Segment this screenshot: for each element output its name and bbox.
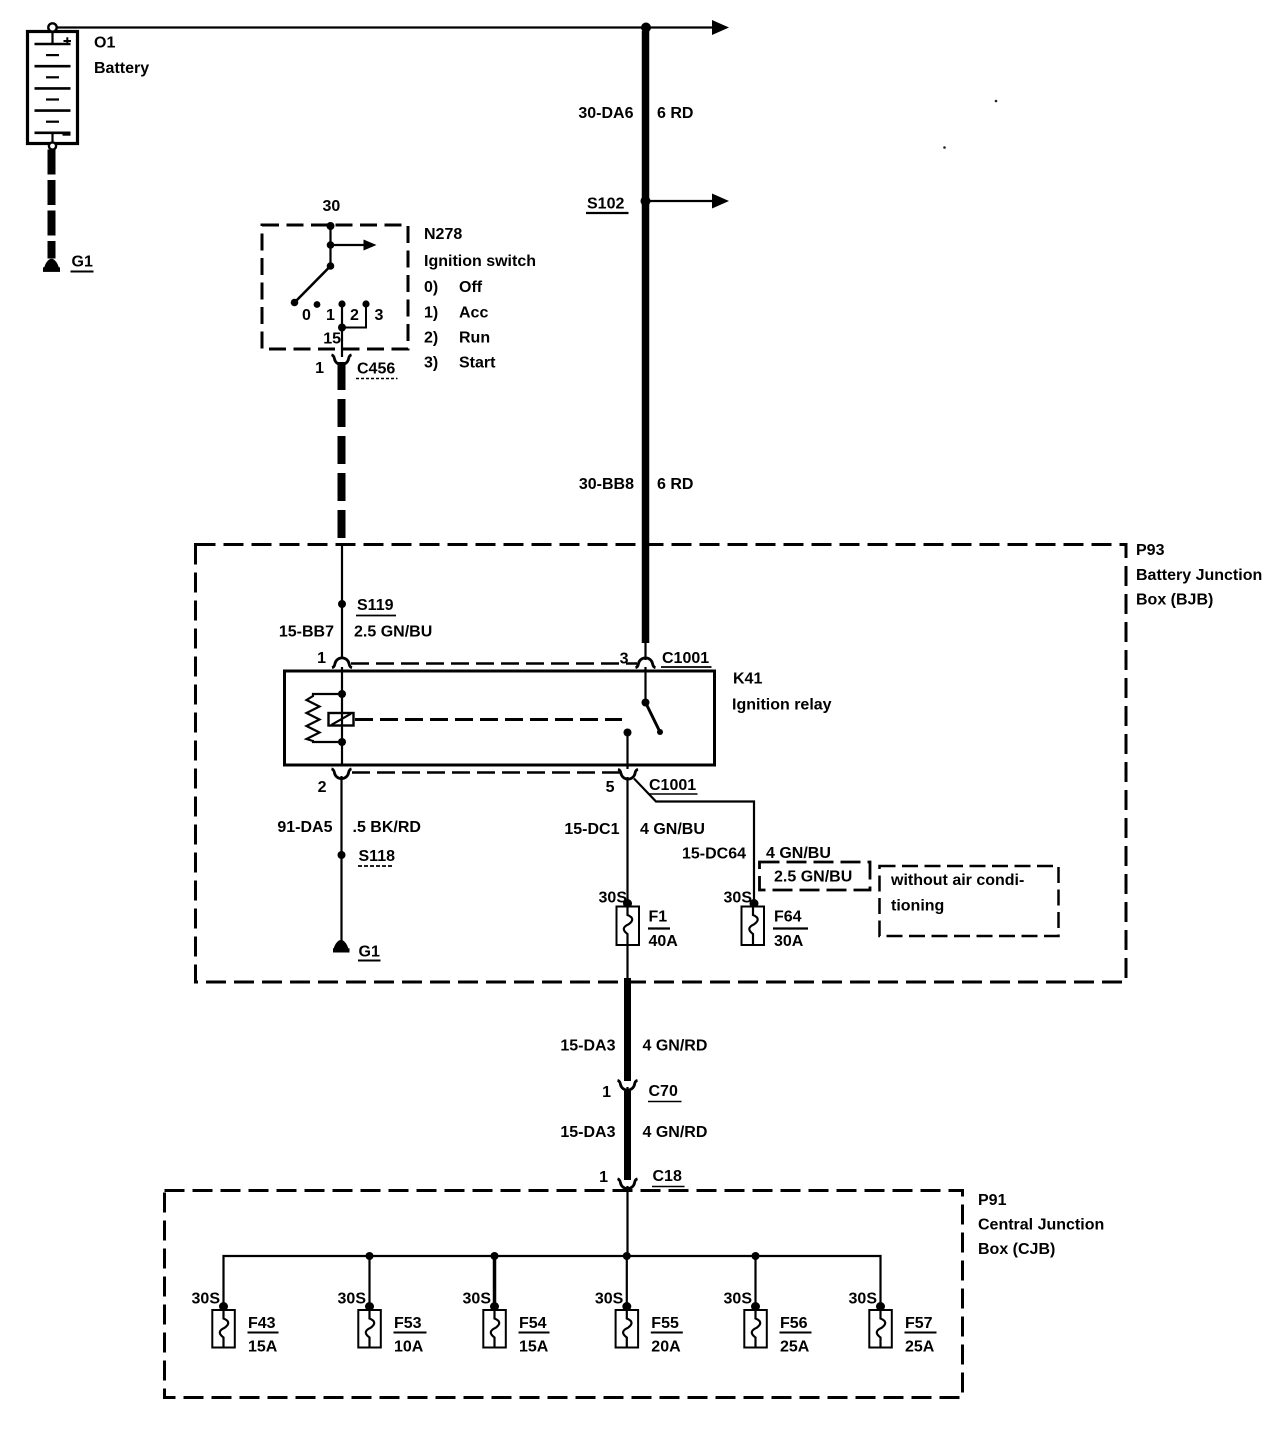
svg-text:F64: F64: [774, 909, 802, 926]
label 15-DC1 4 GN/BU: [564, 821, 705, 838]
splice S119: [338, 597, 396, 616]
fuse F55 20A: [595, 1291, 683, 1356]
fuse F53 10A: [338, 1291, 427, 1356]
label 15-DC64 4 GN/BU: [682, 845, 831, 863]
fuse F57 25A: [849, 1291, 937, 1356]
wire C18 to bus: [626, 1186, 628, 1256]
wire 15-DA3 lower heavy: [626, 1087, 628, 1180]
svg-text:1: 1: [326, 307, 335, 324]
svg-text:N278: N278: [424, 226, 462, 243]
battery terminal top: [48, 23, 56, 31]
box 2.5 GN/BU: [760, 862, 871, 890]
svg-text:G1: G1: [359, 944, 380, 961]
label C1001 bottom: [648, 777, 698, 794]
svg-text:40A: 40A: [649, 933, 679, 950]
svg-text:30-BB8: 30-BB8: [579, 476, 634, 493]
label 15-BB7 2.5 GN/BU: [279, 624, 432, 641]
wire switch common: [327, 226, 335, 266]
svg-text:15-DA3: 15-DA3: [560, 1038, 615, 1055]
svg-text:91-DA5: 91-DA5: [277, 819, 332, 836]
svg-text:1: 1: [317, 650, 326, 667]
svg-text:P93: P93: [1136, 542, 1165, 559]
svg-text:15A: 15A: [248, 1339, 278, 1356]
svg-text:P91: P91: [978, 1192, 1007, 1209]
svg-text:F43: F43: [248, 1315, 276, 1332]
relay K41 box: [285, 671, 715, 765]
svg-text:30S: 30S: [724, 1291, 753, 1308]
wire drop to F56: [754, 1256, 756, 1306]
svg-text:25A: 25A: [780, 1339, 810, 1356]
label C1001 top: [661, 650, 712, 667]
svg-text:F1: F1: [649, 909, 668, 926]
label 30: [323, 198, 341, 215]
svg-text:F57: F57: [905, 1315, 933, 1332]
wire drop to F53: [368, 1256, 370, 1306]
svg-text:G1: G1: [72, 254, 93, 271]
node pin 30: [327, 222, 335, 230]
connector C1001 top dashed link: [351, 662, 637, 665]
svg-text:15A: 15A: [519, 1339, 549, 1356]
svg-text:4 GN/RD: 4 GN/RD: [643, 1124, 708, 1141]
svg-text:2): 2): [424, 330, 438, 347]
svg-text:25A: 25A: [905, 1339, 935, 1356]
connector C456: [332, 355, 352, 365]
wire 91-DA5: [340, 776, 342, 941]
label 1 C456: [315, 360, 397, 379]
label 15: [323, 331, 341, 348]
box P91 Central Junction Box: [165, 1191, 963, 1398]
pin 3 connector: [620, 651, 656, 668]
node bus junction F56: [752, 1252, 760, 1260]
switch contacts 0 1 2 3: [314, 300, 370, 308]
box without air conditioning: [880, 866, 1059, 936]
svg-text:30A: 30A: [774, 933, 804, 950]
wire contact 3 jumper: [342, 304, 366, 328]
svg-text:F55: F55: [651, 1315, 679, 1332]
svg-text:F53: F53: [394, 1315, 422, 1332]
svg-text:30S: 30S: [599, 890, 628, 907]
fuse F56 25A: [724, 1291, 812, 1356]
battery terminal bottom: [49, 142, 56, 149]
wire C456 to BJB (dashed heavy): [338, 362, 346, 544]
svg-text:Ignition relay: Ignition relay: [732, 697, 832, 714]
splice S118: [338, 848, 396, 866]
connector C70: [602, 1080, 681, 1101]
label G1 (BJB): [358, 944, 381, 961]
svg-text:30S: 30S: [724, 890, 753, 907]
bus wire CJB: [224, 1256, 881, 1306]
label 30-BB8 6 RD: [579, 476, 694, 493]
svg-text:Off: Off: [459, 279, 483, 296]
svg-text:Box (CJB): Box (CJB): [978, 1241, 1055, 1258]
svg-text:without air condi-: without air condi-: [890, 872, 1024, 889]
label G1: [71, 254, 94, 272]
svg-text:0: 0: [302, 307, 311, 324]
pin 5 connector: [606, 769, 638, 796]
wire battery negative cable (dashed heavy): [48, 150, 56, 259]
label 15-DA3 4 GN/RD upper: [560, 1038, 707, 1055]
svg-text:1: 1: [599, 1169, 608, 1186]
svg-text:1: 1: [602, 1084, 611, 1101]
fuse F1 40A: [599, 890, 679, 951]
relay coil element: [329, 713, 354, 726]
svg-text:F54: F54: [519, 1315, 547, 1332]
svg-text:C456: C456: [357, 361, 395, 378]
svg-text:C18: C18: [653, 1168, 682, 1185]
pin 1 connector: [317, 650, 352, 668]
pin 2 connector: [318, 769, 352, 796]
svg-text:tioning: tioning: [891, 898, 944, 915]
svg-text:O1: O1: [94, 35, 115, 52]
svg-text:C70: C70: [649, 1083, 678, 1100]
svg-text:5: 5: [606, 779, 615, 796]
svg-text:K41: K41: [733, 671, 762, 688]
svg-text:Battery Junction: Battery Junction: [1136, 567, 1262, 584]
svg-text:C1001: C1001: [662, 650, 709, 667]
svg-text:S119: S119: [357, 597, 394, 614]
svg-text:4 GN/BU: 4 GN/BU: [640, 821, 705, 838]
relay fixed contact to pin 5: [624, 729, 632, 770]
svg-text:Ignition switch: Ignition switch: [424, 253, 536, 270]
label 15-DA3 4 GN/RD lower: [560, 1124, 707, 1141]
svg-text:2: 2: [318, 779, 327, 796]
svg-text:10A: 10A: [394, 1339, 424, 1356]
wire below F1: [626, 945, 628, 979]
relay switch: [642, 667, 664, 735]
battery O1: [28, 32, 78, 144]
svg-text:Run: Run: [459, 330, 490, 347]
svg-text:1): 1): [424, 305, 438, 322]
svg-text:30S: 30S: [595, 1291, 624, 1308]
fuse F64 30A: [724, 890, 808, 951]
svg-text:6 RD: 6 RD: [657, 476, 693, 493]
svg-text:Box (BJB): Box (BJB): [1136, 592, 1213, 609]
fuse F43 15A: [192, 1291, 279, 1356]
svg-text:3: 3: [620, 651, 629, 668]
relay mechanical linkage dashed: [355, 718, 622, 721]
wire 15-BB7: [341, 544, 343, 659]
wire drop to F55: [626, 1256, 628, 1306]
svg-text:30-DA6: 30-DA6: [578, 105, 633, 122]
splice S102: [586, 196, 651, 214]
label O1 Battery: [94, 35, 149, 78]
svg-text:3: 3: [375, 307, 384, 324]
svg-text:15: 15: [323, 331, 341, 348]
svg-text:C1001: C1001: [649, 777, 696, 794]
wire 15-DC64 branch: [634, 779, 754, 904]
svg-text:30S: 30S: [338, 1291, 367, 1308]
wire contact 1 to pin 15: [338, 304, 346, 349]
svg-text:0): 0): [424, 279, 438, 296]
ignition switch N278 dashed box: [262, 225, 408, 349]
svg-text:2.5 GN/BU: 2.5 GN/BU: [354, 624, 432, 641]
wire pin15 to C456: [341, 349, 343, 357]
label 30-DA6 6 RD: [578, 105, 693, 122]
svg-text:3): 3): [424, 355, 438, 372]
svg-text:Start: Start: [459, 355, 496, 372]
wire battery positive to S-junction: [56, 26, 646, 28]
ground G1 (BJB): [333, 941, 350, 953]
svg-text:1: 1: [315, 360, 324, 377]
relay coil branch wire: [338, 667, 346, 765]
svg-text:4 GN/RD: 4 GN/RD: [643, 1038, 708, 1055]
label K41 Ignition relay: [732, 671, 832, 714]
svg-text:F56: F56: [780, 1315, 808, 1332]
svg-text:15-DC1: 15-DC1: [564, 821, 619, 838]
svg-text:6 RD: 6 RD: [657, 105, 693, 122]
node top junction: [641, 23, 651, 33]
wire off-page arrow at S102: [650, 194, 729, 209]
svg-text:.5 BK/RD: .5 BK/RD: [353, 819, 421, 836]
connector C1001 bottom dashed link: [352, 771, 620, 774]
svg-text:2: 2: [350, 307, 359, 324]
svg-text:S102: S102: [587, 196, 624, 213]
connector C18: [599, 1168, 684, 1189]
svg-text:30: 30: [323, 198, 341, 215]
wire 30-DA6 / 30-BB8 (6 RD heavy vertical): [642, 31, 650, 660]
svg-text:15-DA3: 15-DA3: [560, 1124, 615, 1141]
label positions 0 1 2 3: [302, 307, 384, 324]
label N278 Ignition switch: [424, 226, 536, 270]
svg-text:Central Junction: Central Junction: [978, 1217, 1104, 1234]
svg-text:30S: 30S: [192, 1291, 221, 1308]
svg-text:20A: 20A: [651, 1339, 681, 1356]
box P93 Battery Junction Box: [196, 545, 1127, 983]
svg-text:30S: 30S: [849, 1291, 878, 1308]
label P91 Central Junction Box (CJB): [978, 1192, 1104, 1258]
label 91-DA5 .5 BK/RD: [277, 819, 421, 836]
wire 15-DA3 upper heavy: [624, 978, 631, 1081]
svg-text:15-BB7: 15-BB7: [279, 624, 334, 641]
wire off-page arrow top right: [646, 20, 729, 35]
switch wiper arm: [291, 262, 335, 306]
svg-text:Battery: Battery: [94, 60, 149, 77]
ground G1 (battery): [43, 260, 60, 272]
label position list: [424, 279, 496, 372]
fuse F54 15A: [463, 1291, 550, 1356]
label P93 Battery Junction Box (BJB): [1136, 542, 1262, 609]
svg-text:2.5 GN/BU: 2.5 GN/BU: [774, 869, 852, 886]
wire 15-DC1: [626, 777, 628, 903]
node bus junction F55: [623, 1252, 631, 1260]
svg-text:Acc: Acc: [459, 305, 488, 322]
wire switch feed arrow: [331, 240, 377, 251]
wire drop to F54: [493, 1256, 497, 1306]
svg-text:30S: 30S: [463, 1291, 492, 1308]
svg-text:15-DC64: 15-DC64: [682, 846, 746, 863]
svg-text:4 GN/BU: 4 GN/BU: [766, 845, 831, 862]
svg-text:S118: S118: [359, 848, 396, 865]
relay coil resistor: [307, 694, 343, 742]
node bus junction F54: [491, 1252, 499, 1260]
node bus junction F53: [366, 1252, 374, 1260]
